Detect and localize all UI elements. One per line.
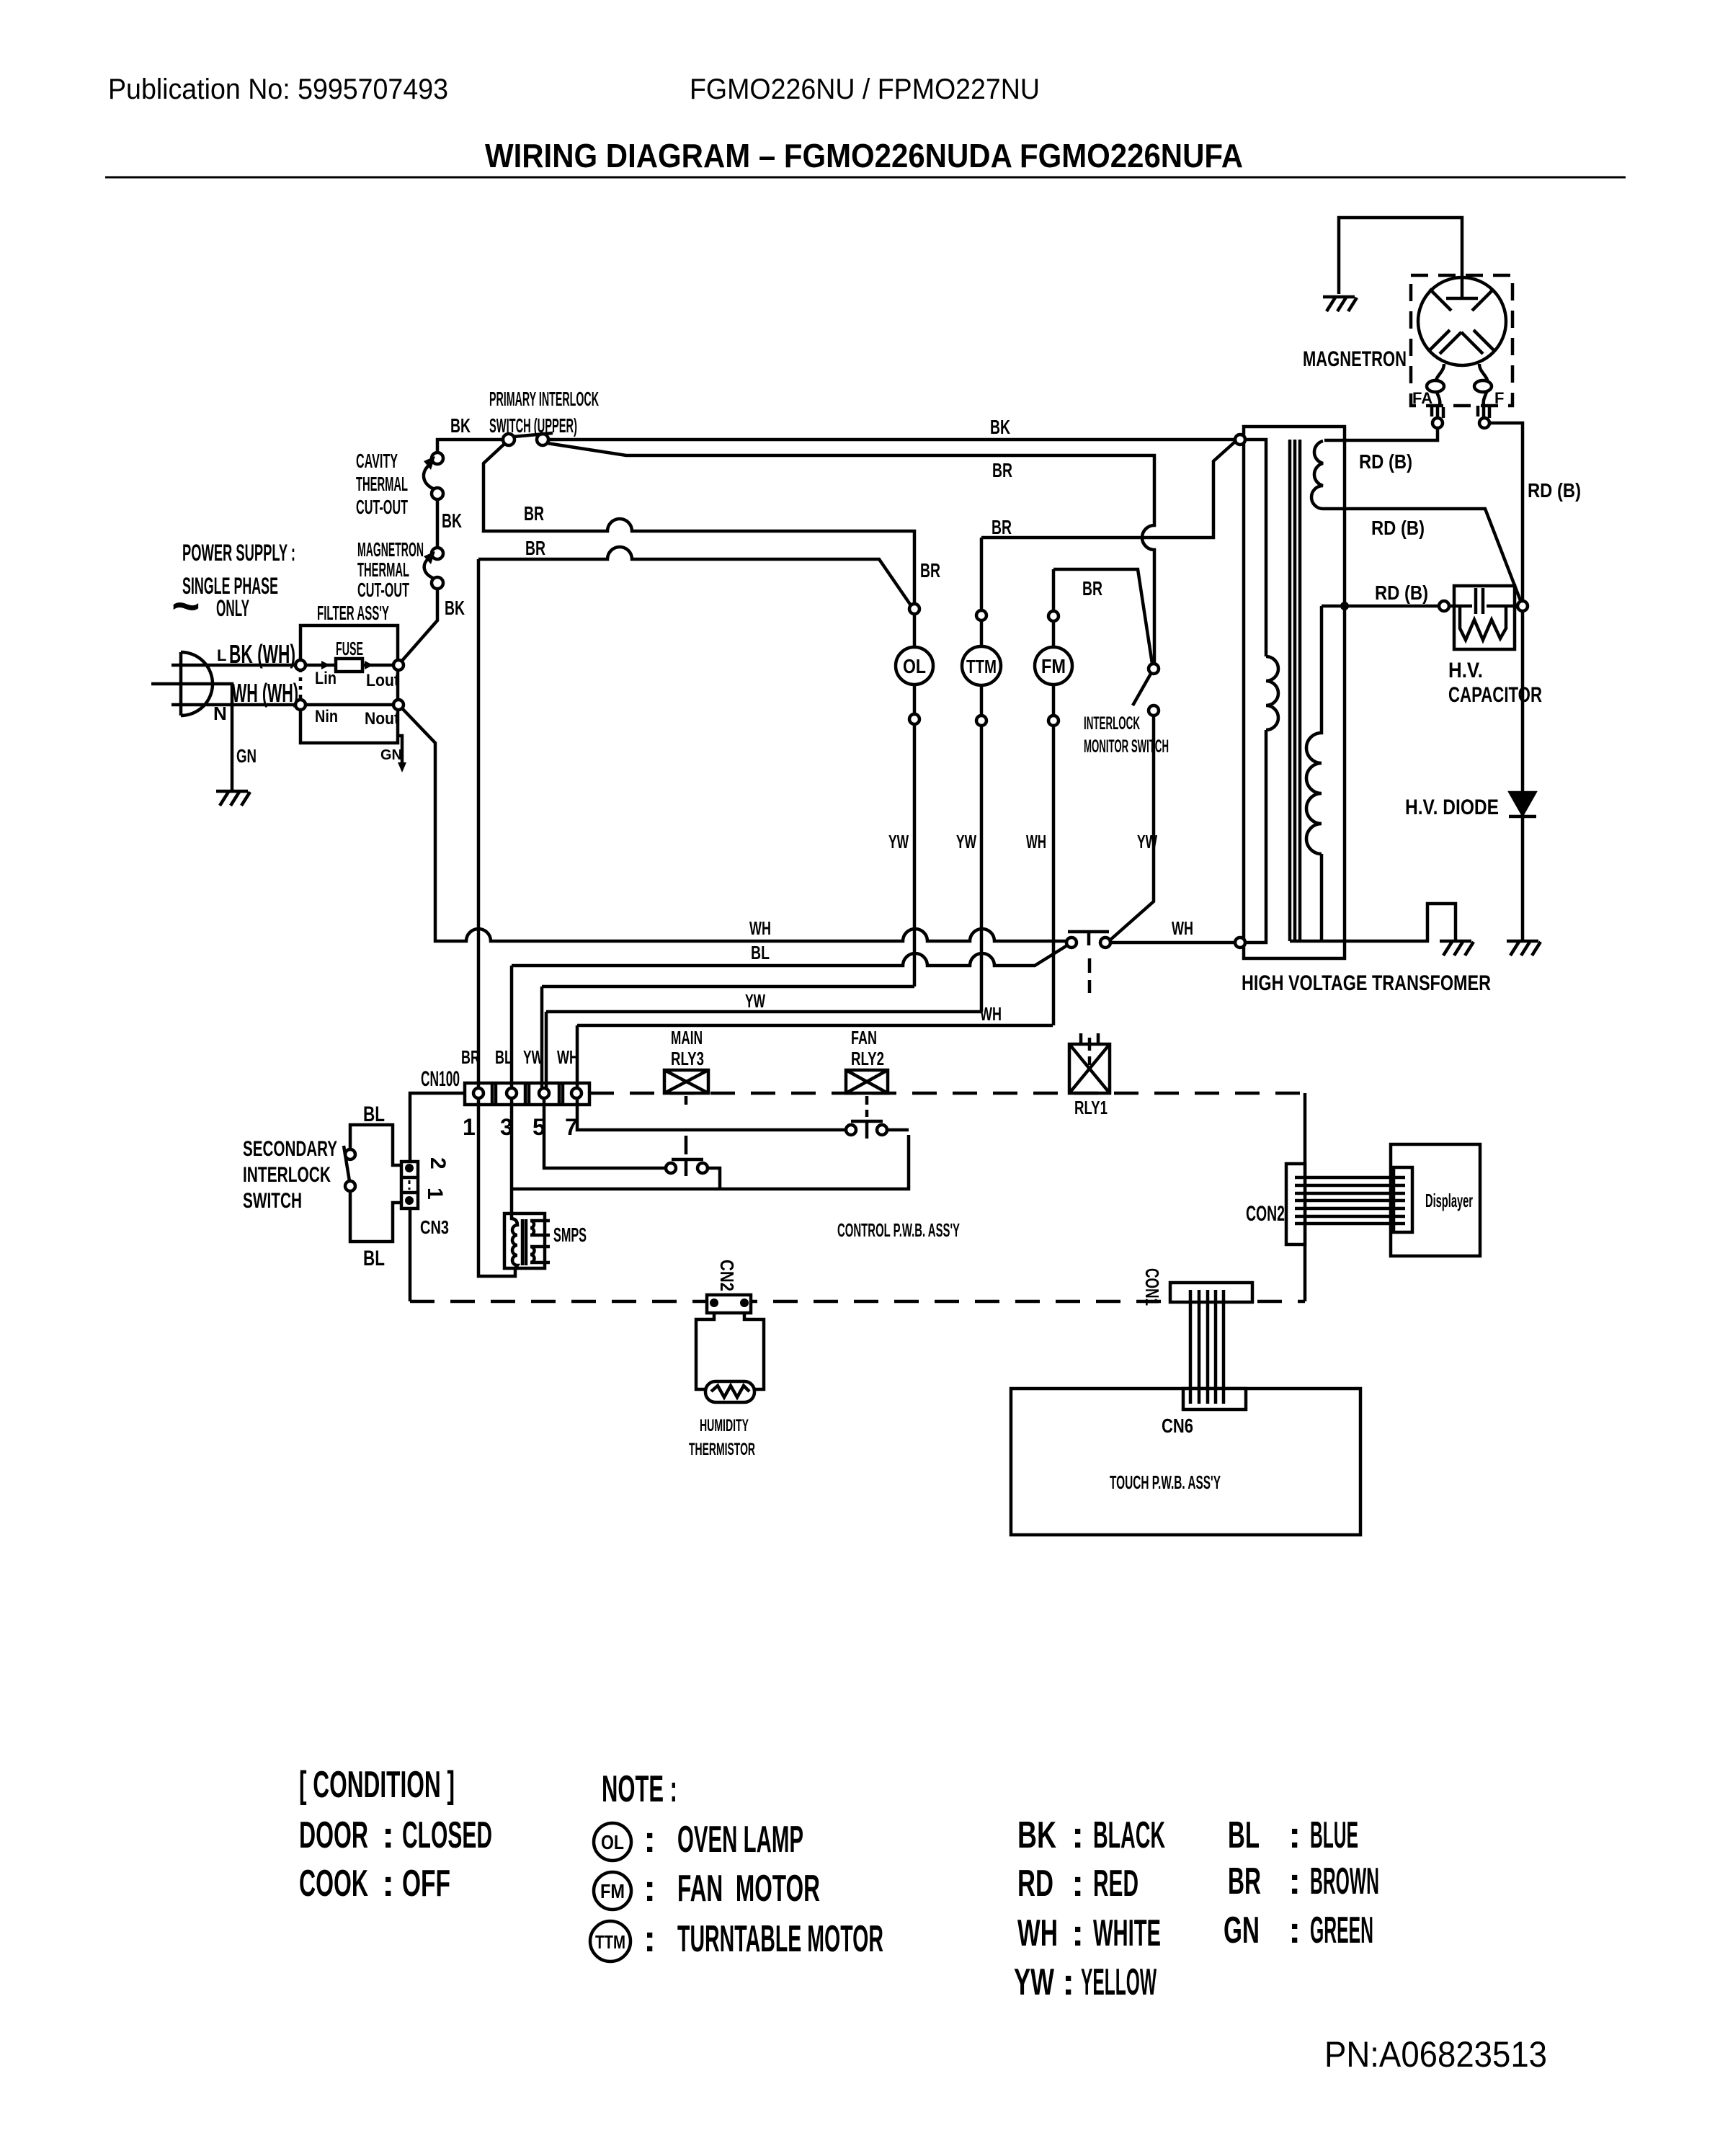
high voltage transformer box (1244, 427, 1345, 958)
svg-text:BLUE: BLUE (1310, 1814, 1358, 1856)
capacitor bleed resistor (1460, 606, 1506, 640)
svg-text:RD (B): RD (B) (1359, 450, 1412, 473)
svg-text::: : (382, 1863, 394, 1905)
svg-text:BL: BL (1228, 1814, 1260, 1856)
svg-text:MONITOR SWITCH: MONITOR SWITCH (1084, 736, 1169, 757)
wire FA to transformer filament winding (1324, 428, 1438, 440)
wire Lout to cutouts (401, 589, 437, 661)
transformer core (1290, 440, 1300, 941)
junction dot on box edge (1340, 602, 1349, 610)
svg-text:BK: BK (445, 597, 465, 619)
svg-text:WH: WH (980, 1003, 1002, 1025)
svg-text:BK: BK (442, 509, 462, 532)
ground at plug GN (216, 791, 250, 806)
svg-text:2: 2 (426, 1157, 450, 1170)
svg-text:Nin: Nin (315, 707, 338, 726)
svg-text:CON1: CON1 (1141, 1268, 1163, 1306)
svg-text:TURNTABLE MOTOR: TURNTABLE MOTOR (677, 1918, 883, 1960)
connector CON2 (1286, 1164, 1305, 1244)
fuse wire Lin-Lout (306, 664, 393, 667)
svg-text:1: 1 (463, 1114, 476, 1140)
svg-text:BL: BL (495, 1046, 512, 1068)
wire FM bus pin7 (577, 1024, 1053, 1028)
svg-text:RD (B): RD (B) (1371, 517, 1425, 539)
svg-text:Nout: Nout (365, 709, 399, 729)
svg-text:YW: YW (888, 831, 909, 852)
wire pin1 to SMPS (478, 1098, 515, 1276)
svg-text:BR: BR (992, 459, 1012, 481)
svg-text:RLY2: RLY2 (851, 1048, 884, 1069)
svg-text:Lout: Lout (366, 671, 399, 690)
wires CON1 to CN6 (1190, 1290, 1224, 1404)
magnetron dashed box (1411, 275, 1512, 406)
control board dashed bottom boundary (410, 1300, 1305, 1304)
svg-text:RD (B): RD (B) (1528, 479, 1581, 502)
wire plug N prong to Nin (171, 703, 297, 707)
svg-text::: : (643, 1819, 656, 1861)
svg-text:F: F (1494, 389, 1504, 407)
wire monitor switch to RLY1 (1110, 716, 1154, 940)
oven lamp OL (909, 604, 919, 614)
fuse F1 (336, 659, 362, 672)
RLY1 contact assembly (1068, 932, 1109, 945)
legend FM symbol (594, 1872, 631, 1910)
wire pin7 vertical (576, 1025, 579, 1088)
svg-text:TOUCH P.W.B. ASS'Y: TOUCH P.W.B. ASS'Y (1110, 1471, 1221, 1493)
feed-through bars F (1478, 406, 1489, 418)
connector CON1 (1170, 1283, 1252, 1302)
svg-text:GN: GN (236, 745, 257, 767)
svg-text:H.V. DIODE: H.V. DIODE (1405, 796, 1499, 819)
interlock monitor switch (1149, 664, 1159, 674)
ground at transformer (1440, 941, 1474, 955)
svg-text:RLY1: RLY1 (1074, 1097, 1108, 1118)
svg-text:GREEN: GREEN (1310, 1910, 1373, 1951)
wire pin5 to RLY3 contact (544, 1098, 666, 1168)
svg-text:FGMO226NU / FPMO227NU: FGMO226NU / FPMO227NU (690, 73, 1040, 105)
wire TTM bus to transformer terminal (981, 442, 1235, 538)
svg-text:FM: FM (600, 1880, 625, 1902)
plug body (181, 652, 213, 716)
svg-text:INTERLOCK: INTERLOCK (243, 1163, 331, 1187)
control board right edge (1304, 1093, 1307, 1301)
svg-text::: : (1071, 1863, 1084, 1905)
svg-text:PN:A06823513: PN:A06823513 (1324, 2034, 1547, 2075)
wire F down right side (1489, 423, 1523, 941)
svg-text:SWITCH: SWITCH (243, 1189, 302, 1213)
wire plug ground prong (151, 684, 232, 790)
SMPS transformer (504, 1213, 545, 1268)
svg-text:CN100: CN100 (421, 1067, 460, 1091)
wire Nin-Nout (306, 703, 393, 707)
H.V. capacitor box (1454, 586, 1515, 649)
connector CN6 (1183, 1389, 1246, 1409)
relay RLY3 contact (672, 1096, 703, 1176)
svg-text:MAIN: MAIN (671, 1027, 703, 1048)
control board dashed top boundary (589, 1092, 1305, 1095)
turntable motor TTM (980, 538, 984, 610)
svg-text:THERMAL: THERMAL (357, 558, 409, 581)
wire FM branch to monitor switch (1053, 569, 1152, 664)
svg-text:FAN: FAN (851, 1027, 877, 1048)
svg-text:HUMIDITY: HUMIDITY (700, 1416, 749, 1435)
wire RLY1 to transformer bottom terminal (1110, 941, 1235, 945)
svg-text::: : (643, 1868, 656, 1910)
GN arrow at Nout (398, 736, 402, 762)
svg-text::: : (643, 1918, 656, 1960)
svg-text:FUSE: FUSE (336, 638, 363, 659)
svg-text:BL: BL (363, 1247, 385, 1270)
legend OL symbol (594, 1823, 631, 1861)
connector CN3 (401, 1162, 418, 1208)
svg-text:BR: BR (920, 559, 940, 582)
svg-text:BL: BL (751, 942, 770, 963)
svg-text:THERMAL: THERMAL (356, 473, 408, 495)
touch pwb box (1011, 1389, 1360, 1535)
svg-text:PRIMARY INTERLOCK: PRIMARY INTERLOCK (489, 388, 599, 410)
svg-text::: : (382, 1814, 394, 1856)
svg-text:BLACK: BLACK (1093, 1814, 1165, 1856)
svg-text:BR: BR (992, 516, 1012, 538)
title rule (105, 177, 1626, 179)
svg-text:H.V.: H.V. (1448, 659, 1483, 682)
svg-text:CAVITY: CAVITY (356, 450, 398, 472)
wire TTM drop YW (980, 726, 984, 1012)
svg-text:1: 1 (423, 1188, 447, 1200)
svg-text:FA: FA (1412, 389, 1432, 407)
wire line A from left contact to OL (484, 444, 914, 604)
svg-text::: : (1288, 1910, 1301, 1951)
svg-text:OVEN LAMP: OVEN LAMP (677, 1819, 803, 1861)
wire OL drop YW (913, 724, 917, 986)
terminal Lin (295, 660, 306, 670)
terminal Nout (393, 700, 404, 710)
svg-text:CONTROL P.W.B. ASS'Y: CONTROL P.W.B. ASS'Y (837, 1219, 960, 1241)
filter assy box (300, 625, 398, 743)
wires CON2 to displayer (1295, 1177, 1405, 1224)
terminal FA (1432, 418, 1443, 428)
svg-text:CLOSED: CLOSED (402, 1814, 492, 1856)
svg-text:FILTER ASS'Y: FILTER ASS'Y (317, 602, 389, 624)
svg-text:YW: YW (1014, 1961, 1055, 2003)
svg-text:THERMISTOR: THERMISTOR (689, 1440, 755, 1459)
svg-text:BR: BR (524, 502, 544, 525)
wire pin7 to RLY2 contact (577, 1098, 846, 1130)
relay RLY3 coil (664, 1070, 708, 1093)
svg-text:OFF: OFF (402, 1863, 450, 1905)
wire pin3 BL vertical upper (510, 966, 514, 1088)
RLY1 coil box (1069, 1044, 1110, 1093)
H.V. diode (1510, 793, 1535, 814)
filament loops (1427, 380, 1444, 392)
humidity thermistor leads (696, 1313, 764, 1389)
svg-text:YW: YW (745, 990, 765, 1012)
magnetron thermal cut-out (432, 577, 443, 589)
svg-text:WH (WH): WH (WH) (232, 678, 298, 708)
svg-text:RD (B): RD (B) (1375, 582, 1428, 604)
magnetron anode bar (1446, 277, 1478, 298)
terminal transformer bottom-left (1235, 937, 1245, 948)
svg-text:BK: BK (450, 414, 471, 437)
connector CN100 (465, 1083, 589, 1105)
terminal F (1479, 418, 1489, 428)
wire BK bus to transformer (548, 438, 1235, 442)
wire plug L prong to Lin (171, 664, 297, 667)
svg-text:L: L (217, 646, 226, 664)
svg-text:INTERLOCK: INTERLOCK (1084, 713, 1140, 734)
svg-text:Publication No: 5995707493: Publication No: 5995707493 (108, 73, 448, 105)
legend TTM symbol (590, 1921, 630, 1961)
humidity thermistor body (705, 1381, 754, 1402)
svg-text:HIGH VOLTAGE TRANSFOMER: HIGH VOLTAGE TRANSFOMER (1242, 971, 1491, 995)
wire between cutouts (436, 499, 440, 548)
svg-text:FM: FM (1041, 655, 1066, 677)
svg-text:WH: WH (1017, 1912, 1058, 1954)
svg-text:WH: WH (557, 1046, 579, 1068)
wire TTM bus pin5 (546, 1010, 981, 1014)
capacitor terminal right (1518, 601, 1528, 611)
wire HV line to capacitor (1322, 605, 1439, 608)
svg-text:BK: BK (990, 416, 1010, 438)
svg-text:WH: WH (749, 917, 771, 939)
wire pin1 BR vertical (477, 559, 481, 1088)
svg-text:SECONDARY: SECONDARY (243, 1137, 337, 1161)
wire BR from right contact to monitor switch (547, 443, 1154, 664)
svg-text::: : (1071, 1814, 1084, 1856)
fan motor FM (1052, 569, 1056, 611)
svg-text:BR: BR (525, 537, 545, 559)
ground at right side (1507, 941, 1541, 955)
wire FM drop WH (1052, 726, 1056, 1025)
wire magnetron anode to ground bracket (1339, 218, 1462, 298)
svg-text:MAGNETRON: MAGNETRON (357, 538, 424, 561)
connector CN2 (707, 1295, 751, 1313)
control board left lead (410, 1093, 465, 1301)
svg-text::: : (1288, 1814, 1301, 1856)
wire YW bus pin5 to OL (542, 985, 914, 989)
svg-text:CUT-OUT: CUT-OUT (356, 496, 408, 518)
wire cutout up to BK bus (437, 440, 503, 453)
capacitor wire and plates (1449, 588, 1518, 614)
svg-text:BK (WH): BK (WH) (229, 639, 295, 669)
svg-text:CN3: CN3 (420, 1216, 449, 1238)
wire BL bus pin3 to RLY1 (512, 945, 1067, 966)
svg-text:ONLY: ONLY (216, 595, 249, 621)
svg-text:TTM: TTM (595, 1931, 625, 1953)
svg-text:YW: YW (956, 831, 976, 852)
magnetron filament stems (1435, 364, 1444, 406)
displayer box (1391, 1144, 1480, 1256)
svg-text:SMPS: SMPS (553, 1224, 587, 1246)
svg-text:DOOR: DOOR (299, 1814, 368, 1856)
wire pin5 verticals (542, 986, 546, 1089)
transformer secondary winding (1306, 606, 1322, 941)
svg-text::: : (1062, 1961, 1074, 2003)
svg-text:POWER SUPPLY :: POWER SUPPLY : (182, 540, 295, 566)
wire RLY2 right contact link (887, 1128, 909, 1132)
svg-text:NOTE :: NOTE : (602, 1768, 677, 1810)
wire pin3 to SMPS and RLY2 line (512, 1098, 909, 1221)
svg-text:BL: BL (363, 1102, 385, 1126)
svg-text:CN6: CN6 (1162, 1415, 1193, 1437)
svg-text:COOK: COOK (299, 1863, 368, 1905)
svg-text:BROWN: BROWN (1310, 1861, 1379, 1902)
svg-text:~: ~ (171, 579, 200, 633)
svg-text:WH: WH (1172, 917, 1193, 939)
svg-text:YW: YW (1137, 831, 1157, 852)
transformer filament winding (1311, 441, 1523, 606)
svg-text:GN: GN (380, 747, 402, 763)
svg-text:YELLOW: YELLOW (1081, 1961, 1157, 2003)
wire line B to OL (478, 547, 911, 605)
relay RLY2 contact (851, 1096, 883, 1139)
transformer ground line with notch (1290, 904, 1456, 941)
svg-text:BR: BR (1228, 1861, 1261, 1902)
relay RLY2 coil (846, 1070, 888, 1093)
terminal Lout (393, 660, 404, 670)
svg-text::: : (1288, 1861, 1301, 1902)
svg-text:RED: RED (1093, 1863, 1139, 1905)
capacitor terminal left (1439, 601, 1449, 611)
svg-text:OL: OL (903, 655, 926, 677)
svg-text:OL: OL (601, 1831, 624, 1853)
terminal transformer top-left (1235, 435, 1245, 445)
svg-text:WIRING DIAGRAM – FGMO226NUDA F: WIRING DIAGRAM – FGMO226NUDA FGMO226NUFA (485, 137, 1243, 174)
svg-text:CAPACITOR: CAPACITOR (1448, 683, 1542, 707)
wire RLY3 contact to BL line (708, 1168, 720, 1189)
svg-text:BK: BK (1017, 1814, 1056, 1856)
svg-text:Displayer: Displayer (1425, 1190, 1473, 1211)
svg-text:RD: RD (1017, 1863, 1053, 1905)
svg-text:CON2: CON2 (1246, 1202, 1285, 1226)
svg-text:WH: WH (1026, 831, 1046, 852)
svg-text:FAN MOTOR: FAN MOTOR (677, 1868, 820, 1910)
svg-text:[ CONDITION ]: [ CONDITION ] (299, 1764, 455, 1806)
magnetron anode vanes (1428, 289, 1495, 354)
cavity thermal cut-out (432, 488, 443, 499)
magnetron tube circle (1418, 277, 1506, 365)
svg-text:WHITE: WHITE (1093, 1912, 1161, 1954)
svg-text::: : (1071, 1912, 1084, 1954)
feed-through bars FA (1432, 406, 1443, 418)
svg-text:CN2: CN2 (716, 1260, 738, 1291)
terminal Nin (295, 700, 306, 710)
ground at magnetron bracket (1323, 297, 1357, 311)
svg-text:TTM: TTM (966, 656, 997, 677)
svg-text:GN: GN (1224, 1910, 1260, 1951)
svg-text:N: N (213, 703, 227, 724)
svg-text:CUT-OUT: CUT-OUT (357, 579, 409, 601)
fuse arrows (321, 661, 373, 669)
wire Nout to WH bus to RLY1 (402, 708, 1066, 941)
svg-text:MAGNETRON: MAGNETRON (1303, 347, 1407, 371)
svg-text:Lin: Lin (315, 669, 337, 688)
svg-text:RLY3: RLY3 (671, 1048, 704, 1069)
transformer primary winding (1245, 440, 1278, 943)
svg-text:BR: BR (1082, 577, 1102, 600)
